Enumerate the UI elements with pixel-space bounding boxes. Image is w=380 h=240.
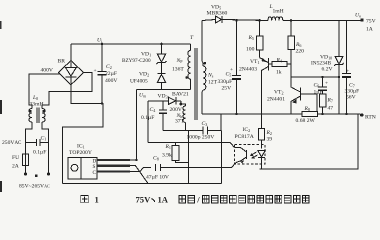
wire bridge top vertex to DC rail [70, 44, 72, 61]
transistor VT2 [300, 88, 302, 101]
svg-text:C: C [93, 170, 97, 176]
svg-text:R8: R8 [304, 106, 310, 112]
wire bridge bottom vertex down [63, 85, 104, 184]
svg-text:PC817A: PC817A [235, 134, 254, 140]
wire control rail to optocoupler [148, 142, 235, 147]
svg-text:IC1: IC1 [77, 144, 85, 150]
wire C3 riser to secondary rail [220, 114, 222, 131]
pin C [97, 170, 130, 172]
svg-text:3.9k: 3.9k [162, 153, 172, 159]
svg-text:136T: 136T [172, 67, 184, 73]
scan mark left edge bottom [0, 181, 2, 192]
svg-text:56V: 56V [346, 95, 356, 101]
IC1 TOP200Y package body [68, 158, 97, 180]
svg-text:VT2: VT2 [274, 90, 284, 96]
svg-text:1mH: 1mH [273, 9, 284, 15]
node C5 top [235, 19, 238, 22]
wire DC top rail [71, 43, 191, 45]
svg-text:1µF: 1µF [314, 90, 323, 96]
capacitor C7 [346, 21, 348, 74]
svg-text:2N4401: 2N4401 [267, 97, 285, 103]
svg-text:IC2: IC2 [243, 127, 251, 133]
svg-text:RTN: RTN [365, 115, 376, 121]
svg-text:75V: 75V [136, 194, 152, 204]
svg-text:47: 47 [328, 106, 334, 112]
wire AC line left vertical [26, 122, 33, 154]
resistor R2 [259, 129, 265, 141]
wire RTN riser to opto return [260, 114, 359, 169]
svg-text:39: 39 [267, 137, 273, 143]
svg-text:400V: 400V [105, 78, 117, 84]
svg-text:TOP200Y: TOP200Y [69, 150, 92, 156]
svg-text:R5: R5 [248, 35, 254, 41]
node VD10 bottom [338, 76, 340, 78]
output terminal Uo [360, 18, 363, 21]
AC terminal left [24, 172, 27, 175]
node clamp top [160, 43, 163, 46]
AC terminal right [47, 172, 50, 175]
resistor R8 [302, 112, 318, 117]
svg-text:C4: C4 [150, 107, 156, 113]
scan mark left edge top [0, 21, 2, 29]
optocoupler phototransistor [246, 150, 248, 159]
svg-text:1000p 250V: 1000p 250V [187, 135, 215, 141]
transformer primary Np winding [190, 44, 192, 51]
svg-text:33mH: 33mH [30, 102, 44, 108]
zener VD1 [161, 44, 163, 54]
svg-text:Um: Um [139, 93, 146, 99]
resistor R1 [175, 142, 177, 145]
wire clamp bottom / primary bottom / drain [137, 89, 191, 91]
svg-text:2A: 2A [12, 164, 19, 170]
svg-text:BR: BR [58, 59, 66, 65]
fuse FU [23, 154, 29, 166]
svg-text:C2: C2 [106, 64, 112, 70]
inductor L0 common-mode choke [29, 109, 32, 123]
svg-text:Uo: Uo [355, 13, 361, 19]
svg-text:C3: C3 [202, 121, 208, 127]
pin S [97, 165, 130, 167]
node R6 top [290, 19, 293, 22]
wire bias top [148, 100, 169, 102]
wire output rail post-L [283, 20, 361, 22]
wire reference line y77 [291, 76, 339, 78]
optocoupler LED [258, 151, 265, 158]
node C2 top [101, 43, 104, 46]
pin D [97, 159, 130, 161]
capacitor C1 [26, 142, 37, 144]
wire Um riser [147, 101, 149, 143]
svg-text:R6: R6 [295, 42, 301, 48]
svg-text:VD3: VD3 [158, 94, 168, 100]
diode VD2 [157, 73, 165, 75]
svg-text:C6: C6 [314, 83, 320, 89]
wire choke left to bridge left vertex [29, 74, 59, 109]
capacitor C4 [162, 101, 164, 110]
bridge rectifier BR [59, 61, 84, 85]
svg-text:330µF: 330µF [218, 79, 233, 85]
resistor R6 [290, 21, 292, 37]
svg-text:0.1µF: 0.1µF [141, 115, 154, 121]
svg-text:400V: 400V [41, 68, 53, 74]
svg-text:R2: R2 [266, 130, 272, 136]
capacitor C5 [236, 20, 238, 75]
diode VD3 [169, 97, 176, 104]
svg-text:250VAC: 250VAC [2, 140, 22, 146]
capacitor C6 [322, 77, 324, 87]
node R5 top [258, 19, 261, 22]
wire primary ground rail [63, 183, 222, 185]
svg-text:VD2: VD2 [139, 72, 149, 78]
svg-text:Ui: Ui [97, 38, 103, 44]
svg-text:C8: C8 [153, 156, 159, 162]
capacitor C8 [155, 164, 157, 171]
caption CJK glyph blocks [179, 196, 309, 203]
wire AC line right vertical [42, 122, 49, 173]
scan mark left edge middle [0, 100, 2, 114]
svg-text:100: 100 [246, 47, 255, 53]
wire fuse to terminal [25, 166, 27, 173]
svg-text:VD1: VD1 [141, 52, 151, 58]
wire bias return riser [187, 131, 189, 184]
svg-text:220: 220 [296, 49, 305, 55]
transformer T core [194, 48, 196, 120]
svg-text:VT1: VT1 [250, 59, 260, 65]
svg-text:1k: 1k [276, 70, 282, 76]
svg-text:+: + [325, 81, 328, 87]
wire bias bottom [163, 130, 197, 132]
transformer secondary Ns winding [203, 66, 206, 90]
wire C3 to primary ground rail [221, 131, 223, 184]
resistor R7 [320, 94, 327, 107]
svg-text:0.68 2W: 0.68 2W [296, 118, 316, 124]
svg-text:C1: C1 [41, 136, 47, 142]
svg-text:25V: 25V [222, 86, 232, 92]
wire output rail pre-L [202, 20, 215, 21]
node rail junctions [235, 113, 237, 115]
svg-text:1A: 1A [366, 27, 373, 33]
AC terminal middle mark [35, 175, 38, 178]
svg-text:+: + [94, 68, 97, 74]
wire choke right to bridge right vertex [42, 73, 92, 109]
node C2 bottom junction [101, 102, 103, 104]
svg-text:MBR360: MBR360 [207, 11, 228, 17]
svg-text:R1: R1 [165, 144, 171, 150]
svg-text:75V: 75V [366, 19, 376, 25]
optocoupler IC2 dashed box [235, 145, 266, 165]
inductor L [268, 17, 283, 21]
node C6 top [321, 76, 323, 78]
svg-text:1: 1 [95, 194, 99, 204]
resistor R4 [272, 62, 287, 67]
svg-text:R7: R7 [327, 98, 333, 104]
svg-text:12T: 12T [208, 80, 218, 86]
capacitor C3 [197, 130, 203, 132]
resistor R5 [259, 20, 261, 36]
svg-text:FU: FU [12, 155, 19, 161]
svg-text:BZY97-C200: BZY97-C200 [122, 58, 151, 64]
svg-text:BAV21: BAV21 [172, 92, 189, 98]
svg-text:+: + [346, 69, 349, 75]
caption comma mark [152, 199, 155, 202]
svg-text:UF4005: UF4005 [130, 79, 148, 85]
diode VD5 output rectifier [215, 16, 221, 23]
wire VT1 base node down [290, 64, 292, 77]
svg-text:L0: L0 [32, 95, 38, 101]
svg-text:R4: R4 [276, 58, 282, 64]
wire control line to optocoupler emitter [161, 163, 236, 168]
svg-text:0.1µF: 0.1µF [33, 150, 46, 156]
wire secondary return rail [202, 113, 302, 115]
svg-text:47µF 10V: 47µF 10V [146, 175, 169, 181]
svg-text:1A: 1A [158, 194, 169, 204]
svg-text:NP: NP [176, 58, 184, 64]
svg-text:6.2V: 6.2V [322, 67, 333, 73]
svg-text:22µF: 22µF [105, 71, 117, 77]
svg-text:37T: 37T [175, 119, 185, 125]
zener VD10 [338, 21, 340, 57]
RTN terminal [360, 113, 363, 116]
transformer bias Nb winding [179, 103, 182, 106]
svg-text:+: + [230, 67, 233, 73]
svg-text:2N4403: 2N4403 [239, 67, 257, 73]
capacitor C2 [101, 44, 103, 72]
caption figure 1 [81, 195, 88, 202]
svg-text:Ns: Ns [207, 73, 214, 79]
transistor VT1 [268, 58, 270, 71]
